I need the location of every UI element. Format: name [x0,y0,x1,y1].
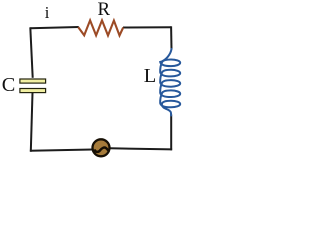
capacitor C plate 2 (bottom) [20,89,46,93]
wire: right vertical lower segment (inductor to BR corner) [170,115,172,151]
wire: top horizontal right segment (resistor to TR corner) [123,26,171,28]
wire: top horizontal left segment (TL corner to resistor) [30,27,78,28]
svg-text:C: C [2,74,16,96]
svg-text:i: i [45,3,50,22]
wire: right vertical upper segment (TR corner to inductor) [170,26,172,49]
svg-text:R: R [98,0,111,20]
wire: left vertical lower segment (capacitor to BL corner) [31,93,33,152]
wire: bottom horizontal left segment (BL corner to source) [30,150,93,151]
inductor L (coil) [160,49,180,116]
wire: left vertical upper segment (TL corner to capacitor) [30,27,32,78]
AC source sine symbol [95,148,108,152]
capacitor C plate 1 (top) [20,79,46,83]
resistor R (zigzag) [78,20,123,35]
svg-text:L: L [144,65,156,87]
wire: bottom horizontal right segment (source to BR corner) [110,148,172,149]
AC source circle [93,139,110,156]
